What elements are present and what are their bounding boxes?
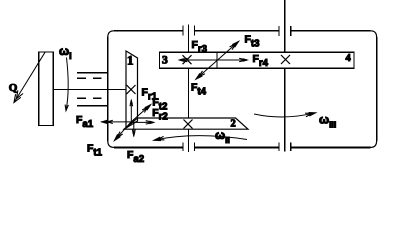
bearing shaft III top	[278, 26, 280, 36]
force Fr1 arrow	[130, 100, 132, 124]
svg-text:1: 1	[127, 53, 134, 68]
omega III arrow	[254, 113, 315, 117]
bearing shaft II top	[182, 26, 184, 36]
svg-text:3: 3	[162, 55, 168, 67]
bearing shaft II bottom	[182, 143, 184, 151]
shaft I	[53, 89, 126, 91]
svg-text:4: 4	[346, 53, 352, 64]
force Ft2 arrow	[131, 105, 151, 122]
svg-text:Q: Q	[9, 82, 18, 94]
force Q arrow	[14, 52, 45, 102]
force Ft4 arrow	[196, 61, 217, 80]
omega I arrow	[66, 58, 68, 111]
gear 1 bevel pinion	[126, 51, 138, 128]
omega II arrow	[155, 136, 248, 140]
node X gear1	[127, 85, 136, 94]
housing corners	[108, 31, 377, 148]
shaft II	[187, 25, 189, 54]
force Fa1 arrow	[101, 121, 131, 123]
force Fr2 arrow	[131, 121, 150, 123]
pulley	[39, 52, 54, 126]
force Fa2 arrow	[133, 119, 135, 137]
housing walls	[108, 31, 377, 148]
force Fr3 arrow	[183, 59, 217, 61]
gear 3 / gear 4 band	[160, 52, 355, 68]
node X gear4	[281, 55, 290, 64]
force Ft3 arrow	[217, 42, 239, 61]
mesh divider gears 3-4	[216, 52, 218, 68]
node X gear2	[184, 120, 193, 129]
bearing dashes	[77, 77, 86, 79]
input bearing boss	[77, 72, 108, 74]
bearing shaft III bottom	[278, 143, 280, 151]
force Ft1 arrow	[115, 122, 132, 141]
node X gear3	[183, 55, 192, 64]
svg-text:2: 2	[231, 119, 236, 130]
shaft III	[284, 0, 286, 53]
force Fr4 arrow	[217, 59, 244, 61]
gear 2 bevel wheel	[124, 118, 248, 129]
